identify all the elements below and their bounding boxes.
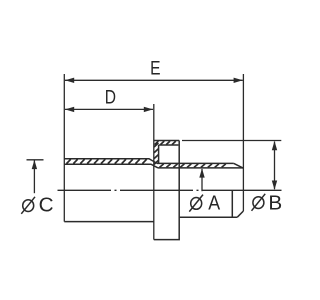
svg-text:E: E	[150, 57, 161, 79]
phiB dimension top extension line	[182, 140, 281, 142]
phi symbol of phiC	[23, 200, 34, 212]
flange inner top line	[159, 144, 179, 146]
phiC leader line	[33, 161, 35, 194]
phi symbol of phiA	[191, 198, 202, 210]
dimension line E	[65, 79, 243, 81]
flange inner left line	[158, 145, 160, 163]
extension line D right (flange left face)	[153, 104, 155, 240]
extension line left (tube left face)	[63, 74, 65, 222]
arrowhead phiC up	[32, 160, 37, 169]
right tube outer top line	[157, 162, 234, 164]
right tube wall hatching	[160, 164, 226, 168]
dimension line D	[65, 108, 153, 110]
phiB dimension line	[274, 142, 276, 190]
extension line E right (tube right face)	[242, 74, 244, 211]
centerline axis	[58, 189, 244, 191]
flange left wall hatching	[154, 143, 158, 164]
left tube outer top line	[64, 159, 157, 164]
left tube bottom line	[64, 221, 154, 223]
right tube bottom line	[179, 216, 237, 218]
svg-text:A: A	[208, 193, 220, 215]
left tube wall hatching	[67, 159, 147, 163]
arrowhead phiB up	[272, 141, 277, 150]
svg-text:D: D	[105, 86, 116, 108]
left tube bore line	[64, 164, 158, 168]
right tube bottom chamfer	[237, 211, 243, 217]
phiA leader line	[201, 169, 203, 191]
arrowhead E right	[234, 78, 243, 83]
arrowhead E left	[65, 78, 74, 83]
phi symbol of phiB	[253, 197, 264, 209]
arrowhead phiB down	[272, 181, 277, 190]
phiC extension line	[27, 159, 44, 161]
right tube chamfer circle line	[231, 190, 233, 217]
arrowhead D right	[144, 107, 153, 112]
right tube bore line	[158, 167, 243, 169]
flange top wall hatching	[155, 141, 176, 145]
svg-text:C: C	[39, 194, 54, 217]
flange block outline	[154, 141, 179, 240]
arrowhead D left	[65, 107, 74, 112]
right tube top chamfer	[234, 163, 244, 168]
arrowhead phiA up	[199, 168, 204, 177]
svg-text:B: B	[268, 192, 282, 215]
node phiB lower extension	[244, 189, 282, 191]
